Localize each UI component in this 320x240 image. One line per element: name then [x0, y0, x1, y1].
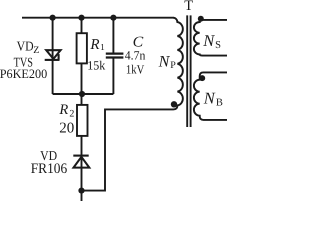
svg-text:1kV: 1kV	[126, 62, 145, 76]
node dot R1 top	[78, 15, 84, 21]
transformer core	[187, 15, 190, 127]
svg-text:S: S	[215, 40, 221, 51]
svg-text:FR106: FR106	[31, 161, 67, 177]
polarity dot NB top	[199, 75, 205, 81]
svg-text:2: 2	[69, 109, 74, 120]
capacitor C plates	[106, 52, 124, 54]
svg-text:P: P	[170, 60, 176, 71]
node dot VDZ top	[50, 15, 56, 21]
TVS diode VDZ symbol	[45, 50, 61, 60]
svg-text:N: N	[202, 31, 215, 50]
svg-text:N: N	[158, 54, 171, 71]
svg-text:B: B	[216, 97, 223, 108]
svg-text:Z: Z	[33, 45, 39, 56]
node dot bottom junction	[78, 188, 84, 194]
diode VD FR106 symbol	[73, 156, 89, 168]
node dot C top	[110, 15, 116, 21]
transformer secondary winding NB	[194, 72, 227, 120]
svg-text:R: R	[58, 102, 68, 118]
svg-text:T: T	[184, 0, 193, 14]
resistor R2 body	[77, 105, 88, 136]
svg-text:N: N	[203, 88, 216, 107]
wire middle bus	[53, 93, 114, 95]
svg-text:1: 1	[100, 42, 105, 52]
TVS diode VDZ branch wire	[52, 18, 54, 94]
svg-text:P6KE200: P6KE200	[0, 67, 47, 81]
capacitor C branch wire	[112, 18, 114, 94]
svg-text:R: R	[89, 37, 99, 53]
polarity dot NS top	[198, 16, 204, 22]
resistor R1 branch wire	[81, 18, 83, 94]
svg-text:15k: 15k	[87, 58, 106, 72]
svg-text:4.7n: 4.7n	[125, 49, 146, 63]
svg-text:VD: VD	[17, 39, 34, 54]
transformer T primary winding NP with top corner and bottom return wire	[82, 18, 183, 191]
transformer secondary winding NS	[194, 20, 227, 56]
resistor R1 body	[77, 33, 87, 63]
node dot mid bus R2	[79, 91, 85, 97]
polarity dot NP bottom	[171, 101, 177, 107]
resistor R2 and diode VD branch wire	[81, 94, 83, 201]
svg-text:20: 20	[59, 120, 74, 136]
wire top bus	[22, 17, 173, 19]
